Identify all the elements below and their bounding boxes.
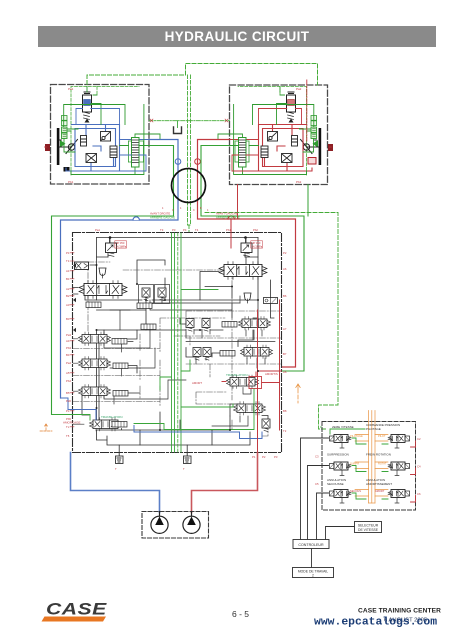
svg-text:Pa5: Pa5 — [66, 399, 71, 403]
svg-text:P3: P3 — [172, 228, 176, 232]
selecteur de vitesse box — [355, 522, 382, 533]
right travel motor — [301, 128, 334, 165]
svg-text:34.3MPa: 34.3MPa — [116, 244, 127, 248]
svg-text:Pa2: Pa2 — [296, 87, 302, 91]
arm spool left — [79, 357, 111, 371]
translation spool right — [227, 375, 259, 389]
pilot gallery (green verticals) — [172, 233, 182, 452]
svg-text:CONTROLEUR: CONTROLEUR — [298, 543, 324, 547]
right brake pilot dash-dot — [306, 80, 308, 141]
svg-text:C2: C2 — [417, 437, 421, 441]
solenoid valve V3 (secousse) — [330, 490, 351, 498]
boom spool left — [79, 332, 111, 346]
svg-text:AMORTIS: AMORTIS — [265, 372, 278, 376]
svg-text:TRANSLATION: TRANSLATION — [101, 415, 122, 419]
pump unit enclosure — [142, 512, 209, 539]
svg-text:A3: A3 — [66, 303, 70, 307]
green drop from right block bottom — [307, 185, 309, 217]
left travel unit enclosure — [51, 85, 150, 185]
travel spool left — [79, 281, 127, 299]
port labels bottom edge — [115, 455, 278, 471]
internal green pilot line — [52, 290, 255, 430]
right counterbalance valve — [235, 138, 249, 168]
svg-text:AMORT: AMORT — [375, 489, 385, 493]
svg-text:T: T — [183, 467, 185, 471]
option inlet part — [222, 322, 237, 328]
svg-text:Pb2: Pb2 — [296, 180, 302, 184]
travel line right A (red) — [198, 140, 296, 368]
svg-text:B6: B6 — [283, 294, 287, 298]
svg-text:B2: B2 — [66, 294, 70, 298]
svg-text:P2: P2 — [262, 455, 266, 459]
svg-text:A5: A5 — [66, 371, 70, 375]
right block red pilot branches — [232, 109, 302, 172]
svg-text:T: T — [115, 467, 117, 471]
tank box 1 — [116, 453, 124, 464]
cartridge pair row B — [193, 348, 201, 361]
svg-text:Pa3: Pa3 — [66, 333, 71, 337]
arm damper — [113, 363, 128, 369]
svg-text:Pb1: Pb1 — [226, 228, 231, 232]
left travel motor — [45, 128, 78, 165]
svg-text:4: 4 — [180, 207, 182, 210]
right brake valve — [287, 92, 296, 120]
tank box 2 — [184, 453, 192, 464]
red port ticks left — [70, 253, 74, 427]
pump supply line right (red) — [192, 453, 258, 513]
swivel joint — [172, 169, 206, 203]
anti-cavitation frames travel row — [139, 285, 170, 304]
left block green piping — [64, 87, 160, 175]
regen spool small left — [86, 302, 101, 308]
left shuttle valve — [81, 136, 87, 147]
svg-text:TRANSLATION: TRANSLATION — [226, 373, 247, 377]
controleur box — [293, 540, 329, 549]
right shuttle valve — [292, 136, 298, 147]
port labels right edge — [283, 251, 287, 433]
left block port labels — [44, 87, 74, 184]
controller wire 3 — [317, 493, 329, 540]
pump P1 — [151, 512, 168, 534]
relief 2 setting label — [252, 241, 263, 248]
translation red frame — [249, 377, 262, 389]
svg-text:T4: T4 — [195, 228, 199, 232]
svg-text:B1: B1 — [66, 277, 70, 281]
svg-text:PILOT: PILOT — [378, 434, 386, 438]
svg-text:Pb3: Pb3 — [66, 346, 71, 350]
svg-text:C: C — [193, 209, 195, 212]
right drain valve red box — [308, 158, 316, 165]
right relief cartridge — [261, 146, 268, 158]
pilot valve small right — [264, 298, 278, 304]
branch red to block top — [230, 219, 232, 233]
inter-block pilot dash-dot (green) — [149, 120, 230, 122]
extra port labels left — [66, 333, 71, 438]
right main red circuit loop — [230, 125, 313, 172]
right check valve square — [268, 132, 278, 142]
svg-text:ARRIERE GAUCHE: ARRIERE GAUCHE — [150, 216, 175, 220]
svg-text:SURPR: SURPR — [350, 462, 359, 466]
svg-text:C6: C6 — [417, 492, 421, 496]
wire jump right — [228, 216, 234, 219]
check cartridge bottom right — [262, 419, 270, 432]
left counterbalance valve — [129, 138, 144, 168]
HP relief valve 2 — [241, 243, 252, 256]
option spool right — [239, 317, 271, 331]
svg-text:P1: P1 — [66, 251, 70, 255]
pilot lines to swivel (green dashed pair) — [188, 75, 191, 233]
controller wire 2 — [308, 466, 329, 540]
right upper green pair — [311, 116, 317, 126]
solenoid valve V2 (surpression) — [330, 462, 351, 470]
left block blue pilot branches — [76, 109, 146, 172]
svg-text:B: B — [200, 207, 202, 210]
C-port labels — [315, 437, 421, 496]
svg-text:SECOUSSE: SECOUSSE — [327, 482, 344, 486]
pilot line end ticks red — [150, 119, 228, 122]
svg-text:www.epcatalogs.com: www.epcatalogs.com — [314, 617, 437, 629]
solenoid valve V5 (frein rotation) — [388, 462, 409, 470]
svg-text:T3: T3 — [160, 228, 164, 232]
svg-text:C4: C4 — [417, 465, 421, 469]
svg-text:Pb5: Pb5 — [66, 417, 71, 421]
pilot green links — [330, 429, 388, 499]
mode de travail box — [293, 568, 334, 578]
svg-text:AMORTISSEMENT: AMORTISSEMENT — [366, 482, 392, 486]
red drop from right block bottom — [237, 185, 239, 220]
svg-text:SELECTEUR: SELECTEUR — [358, 524, 379, 528]
aux part left of option row — [141, 324, 156, 330]
svg-text:CASE: CASE — [46, 601, 108, 619]
pilot line top left (green dashed) — [87, 64, 318, 86]
aux spool right — [241, 345, 273, 359]
bucket damper — [113, 391, 128, 397]
svg-text:TL: TL — [66, 425, 70, 429]
left brake valve spring foot — [85, 119, 90, 123]
pressure reducer funnel left — [99, 268, 106, 278]
drain cup stub (green) — [177, 121, 179, 128]
boom damper — [112, 339, 127, 345]
svg-text:A8: A8 — [283, 370, 287, 374]
extra manifold lines — [104, 300, 265, 426]
travel line left A (green) — [52, 146, 174, 415]
swing spool right — [219, 262, 267, 280]
svg-text:B7: B7 — [283, 352, 287, 356]
svg-text:B8: B8 — [283, 409, 287, 413]
aux inlet part — [220, 351, 235, 357]
svg-text:PILOTAGE: PILOTAGE — [366, 427, 381, 431]
solenoid labels — [327, 423, 400, 486]
svg-text:B4: B4 — [66, 353, 70, 357]
hose symbol right (circle on red) — [195, 159, 201, 165]
HP relief valve 1 — [106, 243, 117, 256]
right block green piping — [218, 87, 314, 175]
left green control stack — [62, 127, 68, 139]
internal pilot dash-dot lines — [73, 262, 281, 436]
left main blue circuit loop — [66, 125, 149, 172]
bucket spool left — [79, 385, 111, 399]
svg-text:A6: A6 — [283, 267, 287, 271]
pressure reducer funnel right — [244, 293, 251, 303]
right travel unit enclosure — [230, 85, 328, 185]
left orifice valve — [86, 154, 97, 163]
svg-text:A4: A4 — [66, 339, 70, 343]
solenoid valve block enclosure — [322, 422, 416, 511]
pump P2 — [183, 512, 200, 534]
svg-text:Dr: Dr — [329, 145, 332, 149]
anti-cavitation cartridge pair row A — [186, 319, 194, 332]
svg-text:Pa1: Pa1 — [68, 87, 74, 91]
svg-text:DE VITESSE: DE VITESSE — [358, 528, 379, 532]
svg-text:Dr: Dr — [44, 145, 47, 149]
svg-text:PL: PL — [66, 409, 70, 413]
svg-text:P3: P3 — [274, 455, 278, 459]
relief 1 setting label — [116, 241, 127, 248]
left border port stubs — [73, 288, 84, 425]
right orifice valve — [282, 154, 293, 163]
svg-text:34.3MPa: 34.3MPa — [252, 244, 263, 248]
svg-text:B3: B3 — [66, 317, 70, 321]
solenoid valve V1 (2nd speed) — [330, 435, 351, 443]
right brake valve spring foot — [289, 119, 294, 123]
svg-text:A1: A1 — [66, 269, 70, 273]
left check valve square — [101, 132, 111, 142]
svg-text:Pb4: Pb4 — [66, 379, 71, 383]
travel line right B (green) — [201, 146, 304, 372]
svg-text:B5: B5 — [66, 391, 70, 395]
port labels top edge — [95, 228, 258, 232]
svg-text:Pb2: Pb2 — [253, 228, 258, 232]
travel line left B (blue) — [61, 140, 179, 399]
svg-text:Pa4: Pa4 — [66, 361, 71, 365]
svg-text:C: C — [172, 209, 174, 212]
arm2 spool right — [234, 402, 266, 416]
pilot line to solenoid block (green dashed) — [205, 213, 338, 430]
svg-text:6 - 5: 6 - 5 — [232, 609, 249, 619]
svg-text:2: 2 — [312, 574, 314, 578]
right block pilot dashed frame — [238, 87, 307, 176]
node labels near swivel — [150, 212, 240, 220]
svg-text:FREIN ROTATION: FREIN ROTATION — [366, 453, 391, 457]
svg-text:Pa1: Pa1 — [95, 228, 100, 232]
port labels left edge — [66, 251, 70, 429]
internal blue pilot line — [61, 398, 263, 439]
svg-text:A2: A2 — [66, 287, 70, 291]
svg-text:P1: P1 — [252, 455, 256, 459]
swivel port ticks — [162, 207, 209, 212]
mode wire — [311, 549, 313, 568]
left relief cartridge — [110, 146, 117, 158]
svg-text:CASE TRAINING CENTER: CASE TRAINING CENTER — [358, 608, 441, 615]
svg-text:SURPRESSION: SURPRESSION — [327, 453, 349, 457]
left border port diamonds — [73, 263, 76, 332]
orange dash left — [40, 424, 52, 431]
svg-text:4: 4 — [207, 209, 209, 212]
svg-text:P2: P2 — [283, 251, 287, 255]
svg-text:A7: A7 — [283, 327, 287, 331]
valve tank stubs — [340, 443, 399, 504]
CASE logo — [42, 601, 108, 622]
left brake valve — [83, 92, 92, 120]
svg-text:T5: T5 — [66, 434, 70, 438]
left block pilot dashed frame — [71, 87, 139, 176]
svg-text:P4: P4 — [183, 228, 187, 232]
drain cup symbol — [174, 127, 182, 134]
svg-text:ARRIERE DROITE: ARRIERE DROITE — [216, 216, 240, 220]
svg-text:C3: C3 — [315, 455, 319, 459]
hose symbol left (circle on blue) — [175, 159, 181, 165]
left motor drain plug — [64, 167, 70, 172]
extra band lines — [150, 296, 275, 342]
selecteur wire — [326, 527, 355, 540]
solenoid port mini labels — [350, 434, 387, 493]
internal supply bus (black) — [82, 238, 274, 453]
solenoid valve V4 (pression pilotage) — [388, 435, 409, 443]
svg-text:2EME VITESSE: 2EME VITESSE — [332, 425, 354, 429]
junction dots — [96, 264, 260, 431]
red output stubs right — [411, 441, 416, 502]
controller wire 1 — [301, 438, 329, 540]
internal red lines — [222, 233, 282, 453]
svg-text:ROTAT: ROTAT — [378, 462, 387, 466]
anti-cavitation cartridge pair travel row — [142, 288, 150, 301]
right green control stack — [311, 127, 317, 139]
translation damper left — [112, 422, 127, 428]
svg-text:T2: T2 — [283, 429, 287, 433]
solenoid valve V6 (amortissement) — [388, 490, 409, 498]
svg-text:4: 4 — [162, 207, 164, 210]
svg-text:Pb1: Pb1 — [68, 180, 74, 184]
inlet check valve left — [75, 262, 89, 270]
svg-text:AMORT: AMORT — [192, 381, 202, 385]
orange primer arrow right — [296, 384, 300, 393]
main control valve block border — [73, 233, 282, 453]
translation spool left — [90, 418, 122, 432]
svg-text:T1: T1 — [66, 259, 70, 263]
svg-text:C5: C5 — [315, 482, 319, 486]
svg-text:SECOUS: SECOUS — [350, 489, 361, 493]
svg-text:P: P — [320, 425, 322, 429]
svg-text:PILOTAGE: PILOTAGE — [350, 434, 363, 438]
left upper green pair — [62, 116, 68, 126]
pilot pressure rails (orange) — [355, 411, 388, 504]
pump supply line left (blue) — [71, 453, 160, 513]
right block port labels — [296, 87, 332, 184]
wire jump left — [133, 217, 139, 220]
